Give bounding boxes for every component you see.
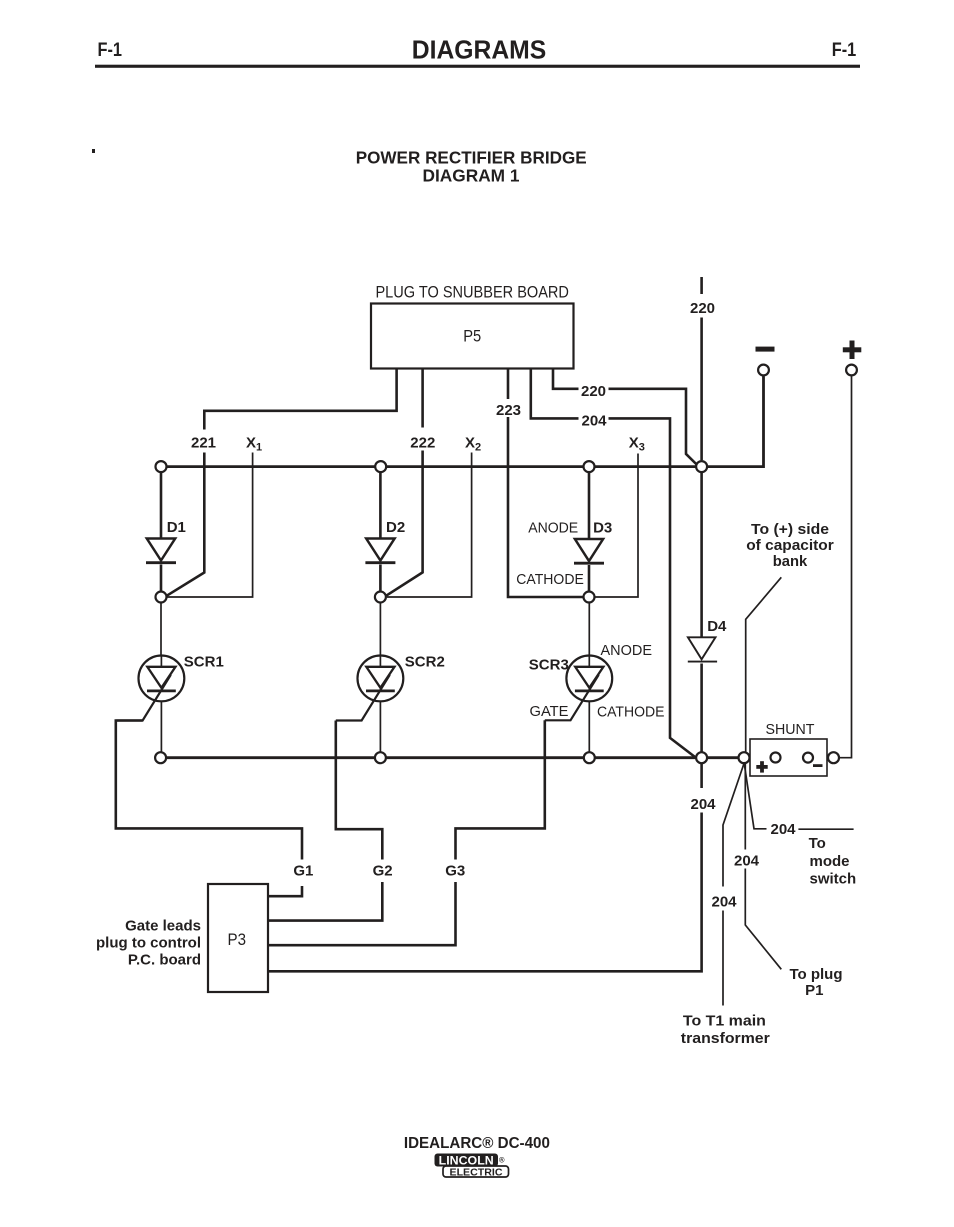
svg-text:bank: bank bbox=[773, 553, 808, 570]
positive terminal bbox=[843, 341, 862, 376]
svg-text:204: 204 bbox=[711, 893, 737, 910]
svg-text:SCR3: SCR3 bbox=[529, 657, 569, 674]
connector P3 bbox=[208, 884, 268, 992]
svg-text:IDEALARC® DC-400: IDEALARC® DC-400 bbox=[404, 1135, 550, 1152]
svg-text:SCR1: SCR1 bbox=[184, 653, 224, 670]
node 220/D4 junction bbox=[696, 461, 707, 472]
svg-text:To T1 main: To T1 main bbox=[683, 1013, 766, 1030]
svg-text:F-1: F-1 bbox=[98, 39, 123, 61]
node shunt output bbox=[828, 752, 839, 763]
wire lead 222 from P5 to D2 anode node bbox=[386, 369, 422, 596]
svg-text:204: 204 bbox=[581, 412, 607, 429]
thyristor SCR2 bbox=[336, 603, 404, 753]
svg-text:To (+) side: To (+) side bbox=[751, 521, 829, 538]
svg-text:204: 204 bbox=[690, 796, 716, 813]
wire upper bus to negative terminal bbox=[161, 376, 764, 466]
svg-text:G1: G1 bbox=[293, 862, 313, 879]
svg-text:GATE: GATE bbox=[530, 703, 569, 720]
wire lead 223 from P5 to D3 cathode node bbox=[508, 369, 584, 598]
svg-text:D4: D4 bbox=[707, 618, 727, 635]
svg-text:D2: D2 bbox=[386, 519, 405, 536]
node shunt input junction bbox=[739, 752, 750, 763]
svg-text:transformer: transformer bbox=[681, 1030, 770, 1047]
thyristor SCR3 bbox=[545, 603, 612, 753]
svg-text:223: 223 bbox=[496, 402, 521, 419]
svg-text:of capacitor: of capacitor bbox=[746, 537, 834, 554]
svg-text:204: 204 bbox=[734, 852, 760, 869]
svg-text:204: 204 bbox=[770, 821, 796, 838]
wire 204 from P3 to lower bus bbox=[269, 763, 702, 971]
wire lead 220 from P5 to upper bus junction bbox=[553, 369, 697, 466]
wire shunt to positive terminal bbox=[839, 376, 851, 757]
node SCR2 cathode junction bbox=[375, 752, 386, 763]
svg-text:switch: switch bbox=[810, 870, 857, 887]
wire 204 to plug P1 bbox=[745, 764, 781, 970]
svg-text:plug to control: plug to control bbox=[96, 934, 201, 951]
wire to capacitor bank bbox=[746, 577, 782, 752]
svg-text:SCR2: SCR2 bbox=[405, 653, 445, 670]
diode D1 bbox=[146, 473, 176, 592]
diode D4 bbox=[688, 473, 717, 752]
node SCR3 cathode junction bbox=[584, 752, 595, 763]
svg-text:DIAGRAM 1: DIAGRAM 1 bbox=[423, 166, 520, 186]
svg-text:ANODE: ANODE bbox=[601, 642, 653, 659]
svg-text:P5: P5 bbox=[463, 328, 481, 346]
svg-text:PLUG TO SNUBBER BOARD: PLUG TO SNUBBER BOARD bbox=[375, 282, 569, 301]
negative terminal bbox=[756, 347, 775, 376]
svg-text:221: 221 bbox=[191, 434, 216, 451]
svg-text:CATHODE: CATHODE bbox=[516, 571, 584, 588]
svg-text:mode: mode bbox=[810, 853, 850, 870]
wire 204 to T1 main transformer bbox=[723, 764, 744, 1006]
svg-text:G3: G3 bbox=[445, 862, 465, 879]
wire lead 204 from P5 to lower bus junction bbox=[531, 369, 696, 758]
svg-text:F-1: F-1 bbox=[832, 39, 857, 61]
lower bus row bbox=[161, 756, 750, 759]
svg-text:Gate leads: Gate leads bbox=[125, 918, 201, 935]
node X3 junction bbox=[584, 461, 595, 472]
wire 204 to mode switch bbox=[744, 762, 854, 829]
svg-text:ANODE: ANODE bbox=[528, 520, 578, 537]
svg-text:POWER RECTIFIER BRIDGE: POWER RECTIFIER BRIDGE bbox=[356, 148, 587, 168]
wire X3 stub bbox=[596, 454, 639, 598]
svg-text:P3: P3 bbox=[228, 931, 247, 949]
svg-text:DIAGRAMS: DIAGRAMS bbox=[412, 34, 547, 64]
svg-text:G2: G2 bbox=[373, 862, 393, 879]
wire gate G1 from SCR1 to P3 bbox=[116, 721, 302, 897]
svg-text:D1: D1 bbox=[167, 519, 186, 536]
svg-text:To: To bbox=[809, 835, 826, 852]
svg-text:SHUNT: SHUNT bbox=[766, 721, 815, 738]
node SCR1 cathode junction bbox=[155, 752, 166, 763]
wire gate G2 from SCR2 to P3 bbox=[269, 721, 382, 921]
wire X1 stub bbox=[168, 453, 253, 598]
svg-text:ELECTRIC: ELECTRIC bbox=[450, 1167, 503, 1178]
svg-text:D3: D3 bbox=[593, 519, 612, 536]
wire 220 from top bbox=[700, 277, 703, 460]
svg-text:To plug: To plug bbox=[789, 966, 842, 983]
connector P5 bbox=[371, 282, 574, 368]
svg-text:®: ® bbox=[499, 1156, 505, 1165]
wire gate G3 from SCR3 to P3 bbox=[269, 720, 545, 945]
svg-text:220: 220 bbox=[690, 300, 715, 317]
svg-text:220: 220 bbox=[581, 383, 606, 400]
node D1 cathode bbox=[156, 592, 167, 603]
label To (+) side of capacitor bank bbox=[746, 521, 834, 570]
label To T1 main transformer bbox=[681, 1013, 770, 1048]
label To mode switch bbox=[809, 835, 857, 887]
shunt bbox=[750, 739, 827, 776]
svg-text:P.C. board: P.C. board bbox=[128, 951, 201, 968]
node X2 junction bbox=[375, 461, 386, 472]
label Gate leads plug to control P.C. board bbox=[96, 918, 201, 969]
svg-text:P1: P1 bbox=[805, 982, 823, 999]
wire X2 stub bbox=[387, 453, 472, 598]
label To plug P1 bbox=[789, 966, 842, 999]
node D2 cathode bbox=[375, 592, 386, 603]
svg-text:CATHODE: CATHODE bbox=[597, 703, 665, 720]
node D4 / 204 junction bbox=[696, 752, 707, 763]
thyristor SCR1 bbox=[116, 603, 184, 753]
diode D3 bbox=[574, 473, 604, 592]
wire lead 221 from P5 to D1 anode node bbox=[167, 369, 397, 596]
node D3 cathode bbox=[584, 592, 595, 603]
diode D2 bbox=[365, 473, 395, 592]
node X1 junction bbox=[156, 461, 167, 472]
svg-text:222: 222 bbox=[410, 434, 435, 451]
